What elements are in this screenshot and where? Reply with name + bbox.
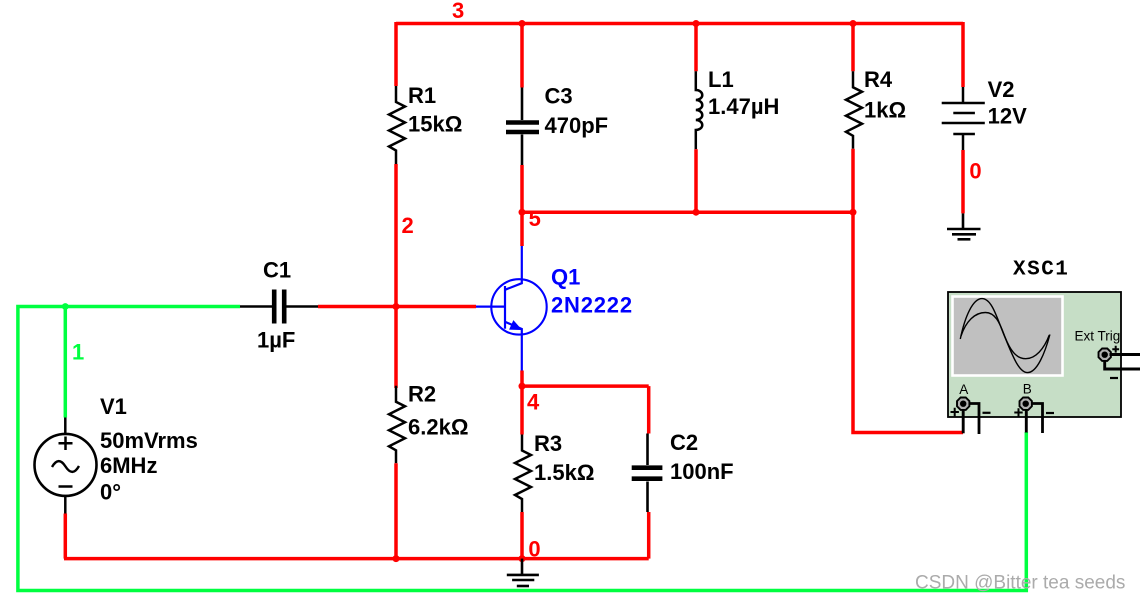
scope trace A	[960, 299, 1050, 373]
svg-text:3: 3	[452, 0, 464, 23]
svg-text:0: 0	[528, 536, 540, 561]
svg-text:2: 2	[402, 213, 414, 238]
svg-text:1kΩ: 1kΩ	[864, 98, 906, 123]
svg-text:R2: R2	[408, 382, 436, 407]
svg-text:1.5kΩ: 1.5kΩ	[534, 460, 594, 485]
wire L1 bottom red	[694, 149, 698, 213]
svg-text:470pF: 470pF	[545, 113, 609, 138]
wire C2 top red	[647, 386, 651, 433]
svg-text:XSC1: XSC1	[1013, 259, 1069, 282]
scope body	[948, 292, 1121, 417]
wire R3 top red	[520, 386, 524, 434]
wire emitter red to node 4	[520, 371, 524, 388]
svg-text:A: A	[959, 382, 968, 397]
svg-text:C1: C1	[263, 258, 291, 283]
transistor Q1	[476, 246, 547, 371]
wire node 5 rail	[522, 210, 853, 214]
junction node 4	[519, 383, 526, 390]
svg-text:100nF: 100nF	[670, 459, 734, 484]
svg-text:V2: V2	[988, 77, 1015, 102]
svg-text:6.2kΩ: 6.2kΩ	[408, 415, 468, 440]
wire green V1 branch	[64, 307, 68, 418]
scope trace B	[961, 313, 1049, 359]
resistor R4	[846, 71, 862, 149]
svg-text:Q1: Q1	[551, 265, 580, 290]
scope screen	[953, 297, 1063, 376]
junction node 0	[519, 555, 526, 562]
ground under V2	[947, 213, 981, 239]
svg-text:50mVrms: 50mVrms	[100, 428, 198, 453]
wire collector red to node 5	[520, 212, 524, 246]
svg-text:C3: C3	[545, 84, 573, 109]
junction L1 bottom	[693, 209, 700, 216]
wire scope A feed	[853, 212, 963, 432]
svg-text:V1: V1	[100, 394, 127, 419]
wire L1 top red	[694, 22, 698, 71]
junction R4 top	[850, 20, 857, 27]
wire R2 bottom red	[394, 463, 398, 558]
wire V1 bottom red	[64, 514, 68, 559]
source V1	[35, 418, 97, 514]
channel B terminal	[1020, 398, 1032, 410]
svg-text:2N2222: 2N2222	[551, 293, 633, 318]
svg-text:5: 5	[529, 206, 541, 231]
wire bottom rail	[64, 557, 649, 561]
wire R1 to base junction node 2	[394, 164, 398, 388]
wire top rail node 3	[396, 22, 963, 26]
wire V2 to ground red	[961, 150, 965, 213]
svg-text:R4: R4	[864, 67, 893, 92]
junction R4 bottom	[850, 209, 857, 216]
junction node 2	[393, 303, 400, 310]
wire green input net 1	[18, 307, 1026, 591]
svg-text:1.47µH: 1.47µH	[708, 94, 779, 119]
resistor R1	[389, 86, 405, 164]
svg-text:1: 1	[72, 339, 84, 364]
junction R2 bottom	[393, 555, 400, 562]
channel A terminal	[957, 398, 969, 410]
wire R3 bottom red	[520, 512, 524, 559]
wire R1 top lead red	[394, 22, 398, 86]
svg-text:4: 4	[527, 390, 540, 415]
svg-text:6MHz: 6MHz	[100, 453, 157, 478]
resistor R2	[389, 386, 405, 464]
inductor L1	[696, 71, 703, 149]
junction L1 top	[693, 20, 700, 27]
svg-text:0: 0	[969, 159, 981, 184]
battery V2	[942, 87, 985, 150]
svg-text:0°: 0°	[100, 480, 121, 505]
Ext Trig terminal	[1099, 349, 1111, 361]
ground at node 0	[507, 559, 539, 586]
wire V2 top red	[961, 22, 965, 87]
wire C1 to base	[318, 305, 476, 309]
wire C2 bottom red	[647, 512, 651, 559]
svg-text:R1: R1	[408, 83, 436, 108]
resistor R3	[515, 435, 531, 513]
capacitor C2	[632, 434, 663, 513]
svg-text:C2: C2	[670, 430, 698, 455]
svg-text:Ext Trig: Ext Trig	[1075, 329, 1121, 344]
svg-text:L1: L1	[708, 67, 734, 92]
wire C3 top red	[520, 22, 524, 88]
svg-text:15kΩ: 15kΩ	[408, 112, 462, 137]
wire R4 bottom red	[851, 149, 855, 213]
junction node 1	[62, 303, 69, 310]
wire R4 top red	[851, 22, 855, 71]
svg-text:1µF: 1µF	[257, 328, 295, 353]
svg-text:B: B	[1023, 382, 1032, 397]
capacitor C3	[506, 88, 539, 166]
junction node3 at C3 top	[519, 20, 526, 27]
svg-text:CSDN @Bitter tea seeds: CSDN @Bitter tea seeds	[915, 573, 1125, 594]
wire C3 bottom red	[520, 165, 524, 213]
capacitor C1	[240, 290, 318, 324]
svg-text:12V: 12V	[988, 104, 1027, 129]
svg-text:R3: R3	[534, 431, 562, 456]
junction node5 at C3	[519, 209, 526, 216]
oscilloscope XSC1	[948, 292, 1140, 434]
wire node 4 rail	[522, 384, 649, 388]
